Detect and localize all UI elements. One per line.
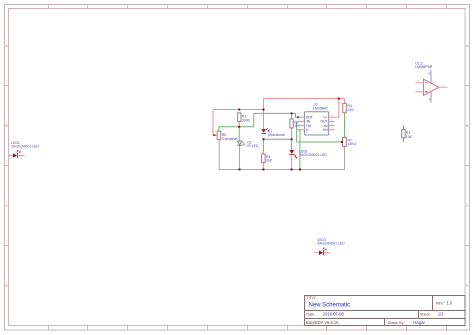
svg-text:2AGG3HD01 LED: 2AGG3HD01 LED	[299, 153, 327, 157]
svg-text:33K: 33K	[266, 158, 273, 162]
svg-text:15KΩ: 15KΩ	[348, 142, 357, 146]
svg-text:IR LED: IR LED	[247, 144, 258, 148]
svg-text:Drawn By:: Drawn By:	[388, 321, 405, 325]
svg-text:2AGG3HD01 LED: 2AGG3HD01 LED	[11, 145, 39, 149]
svg-text:1.0: 1.0	[446, 300, 452, 305]
svg-text:photodiode: photodiode	[268, 133, 285, 137]
svg-text:LM358PSR: LM358PSR	[415, 65, 433, 69]
svg-text:3-terminal: 3-terminal	[222, 137, 237, 141]
svg-text:10K: 10K	[406, 135, 413, 139]
svg-text:2018-07-08: 2018-07-08	[323, 312, 345, 317]
svg-text:1/1: 1/1	[438, 312, 444, 317]
svg-text:V-: V-	[306, 128, 309, 132]
svg-text:Sheet:: Sheet:	[420, 313, 431, 317]
svg-text:LM358BT: LM358BT	[313, 106, 328, 110]
svg-text:22Ω: 22Ω	[348, 108, 355, 112]
svg-text:TITLE:: TITLE:	[307, 296, 317, 300]
svg-text:2AGG3HD01 LED: 2AGG3HD01 LED	[317, 241, 345, 245]
svg-text:EasyEDA V5.6.10: EasyEDA V5.6.10	[306, 320, 339, 325]
svg-text:330Ω: 330Ω	[242, 118, 251, 122]
svg-text:New Schematic: New Schematic	[309, 303, 351, 309]
svg-text:Date:: Date:	[306, 312, 315, 316]
svg-text:+IN: +IN	[322, 128, 328, 132]
svg-text:Hagar: Hagar	[413, 320, 425, 325]
svg-text:REV:: REV:	[436, 301, 444, 305]
